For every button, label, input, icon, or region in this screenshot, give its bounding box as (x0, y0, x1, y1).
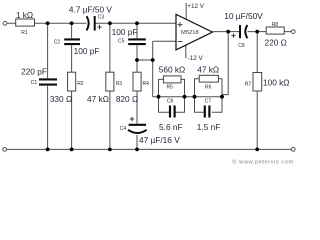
svg-text:330 Ω: 330 Ω (50, 94, 72, 104)
svg-text:C3: C3 (98, 14, 105, 20)
svg-text:C5: C5 (118, 39, 125, 45)
svg-text:47 kΩ: 47 kΩ (87, 94, 109, 104)
svg-text:1.5 nF: 1.5 nF (197, 122, 221, 132)
svg-text:47 kΩ: 47 kΩ (197, 64, 219, 74)
svg-text:47 µF/16 V: 47 µF/16 V (139, 135, 180, 145)
svg-text:220 Ω: 220 Ω (265, 38, 287, 48)
svg-text:5.6 nF: 5.6 nF (159, 122, 183, 132)
svg-text:R8: R8 (272, 22, 279, 28)
svg-text:C8: C8 (238, 43, 245, 49)
svg-text:R6: R6 (205, 84, 212, 90)
svg-text:R3: R3 (116, 81, 123, 87)
svg-text:100 pF: 100 pF (74, 46, 100, 56)
svg-text:100 kΩ: 100 kΩ (263, 78, 290, 88)
svg-text:© www.petervis.com: © www.petervis.com (232, 159, 293, 166)
svg-text:4.7 µF/50 V: 4.7 µF/50 V (69, 4, 113, 14)
svg-text:820 Ω: 820 Ω (116, 94, 138, 104)
svg-text:220 pF: 220 pF (21, 67, 47, 77)
svg-text:R1: R1 (21, 30, 28, 36)
svg-text:C4: C4 (120, 126, 127, 132)
svg-text:10 µF/50V: 10 µF/50V (224, 11, 263, 21)
svg-text:C2: C2 (54, 39, 61, 45)
svg-text:C7: C7 (205, 99, 212, 105)
svg-text:100 pF: 100 pF (112, 27, 138, 37)
svg-text:R4: R4 (143, 81, 150, 87)
svg-text:1 kΩ: 1 kΩ (16, 10, 33, 20)
svg-text:C6: C6 (167, 98, 174, 104)
svg-text:+12 V: +12 V (187, 3, 204, 10)
svg-text:560 kΩ: 560 kΩ (159, 64, 186, 74)
svg-text:-12 V: -12 V (188, 55, 204, 62)
svg-text:R7: R7 (245, 81, 252, 87)
svg-text:R2: R2 (77, 81, 84, 87)
svg-text:R5: R5 (166, 84, 173, 90)
svg-text:M5218: M5218 (181, 30, 199, 36)
svg-text:C1: C1 (31, 80, 38, 86)
